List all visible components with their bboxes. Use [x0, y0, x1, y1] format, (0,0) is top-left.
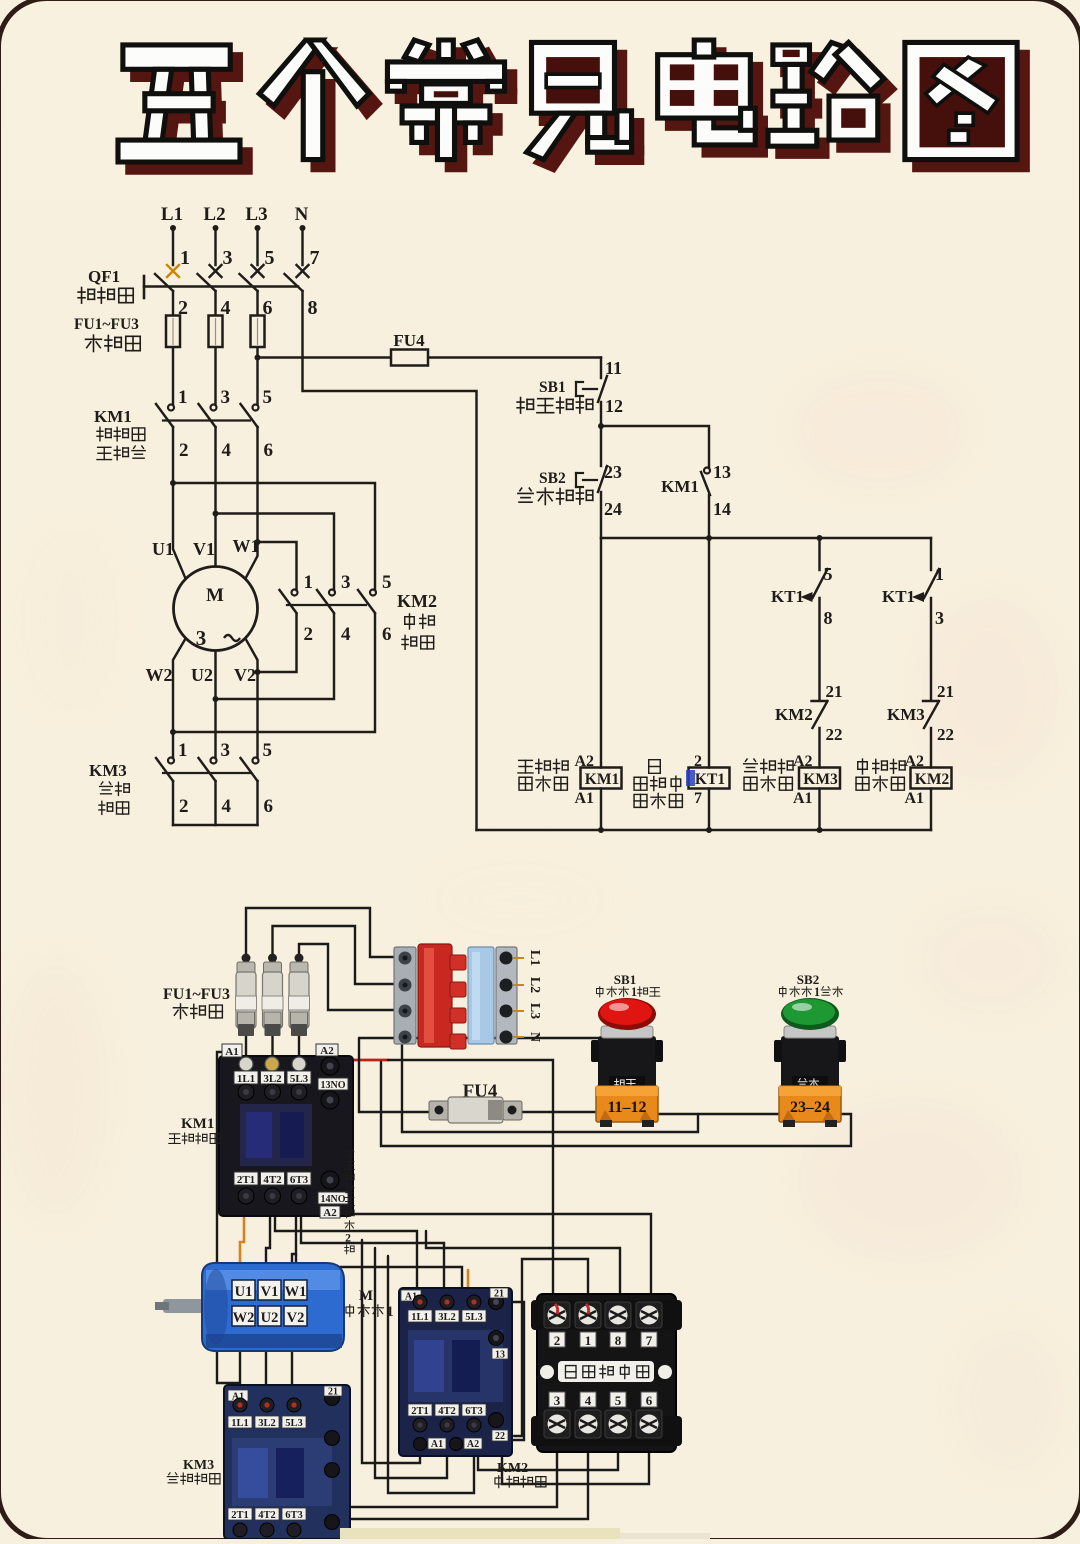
wire relay 3 to KM3 side: [341, 1448, 557, 1507]
title 五个常见电路图: [128, 50, 1027, 172]
svg-text:L3: L3: [527, 1003, 542, 1019]
wire coil KM1 to neutral bus: [600, 789, 602, 831]
wire column 819.5 from bus: [818, 538, 820, 570]
svg-text:5: 5: [382, 572, 392, 593]
node bus junctions: [706, 535, 712, 541]
KM1 terminal 3L2: [261, 1071, 285, 1084]
svg-text:4T2: 4T2: [263, 1174, 282, 1186]
svg-text:W2: W2: [233, 1310, 255, 1326]
wire SB1 to SB2 link: [381, 1062, 851, 1146]
KM1 terminal A2/13NO: [316, 1044, 338, 1056]
wire harness KM1 out to relay 7: [249, 1207, 651, 1312]
wire to NC contact: [818, 598, 820, 700]
relay terminal 2: [544, 1302, 570, 1328]
wire L2 drop: [214, 230, 216, 265]
svg-text:5: 5: [263, 740, 273, 761]
wire coil KT1 to neutral bus: [708, 789, 710, 831]
svg-text:2: 2: [304, 624, 314, 645]
contactor KM1 main contact: [168, 405, 174, 411]
KM3 linkage bar: [163, 772, 250, 774]
svg-text:2: 2: [179, 440, 189, 461]
pushbutton SB1 (NC stop): [575, 382, 577, 396]
svg-text:FU4: FU4: [393, 331, 425, 350]
svg-text:4: 4: [341, 624, 351, 645]
wire KM2 2T1 delta loop: [362, 1240, 420, 1463]
svg-text:KM3: KM3: [803, 771, 838, 788]
wire L1 drop: [172, 230, 174, 265]
wire V2 column to KM3: [246, 639, 258, 758]
svg-text:6: 6: [646, 1393, 653, 1408]
svg-text:8: 8: [615, 1333, 622, 1348]
breaker QF1 contact: [240, 274, 258, 291]
relay label 时间继电器: [540, 1365, 554, 1379]
svg-text:8: 8: [824, 608, 833, 628]
svg-text:3L2: 3L2: [263, 1073, 282, 1085]
contactor KM2 contact: [292, 590, 298, 596]
svg-text:14: 14: [713, 499, 731, 519]
wire W2 column to KM3: [173, 639, 185, 758]
svg-text:FU1~FU3: FU1~FU3: [163, 986, 230, 1003]
relay terminal 7: [636, 1302, 662, 1328]
wire KM2 6T3 delta loop: [388, 1256, 474, 1493]
wire to KM2 5L3: [296, 1254, 462, 1287]
svg-text:KM3: KM3: [183, 1458, 214, 1473]
svg-text:1: 1: [585, 1333, 592, 1348]
contactor KM2 contact: [329, 590, 335, 596]
wire coil feed KM1: [600, 538, 602, 768]
relay terminal 5: [610, 1392, 626, 1407]
pushbutton SB1 (photo): [591, 972, 663, 1127]
wire branch to KM1 aux: [601, 426, 709, 468]
wire control bus: [601, 537, 931, 539]
wire relay 4 to KM3 bottom: [310, 1448, 588, 1519]
svg-text:6: 6: [382, 624, 392, 645]
svg-text:V2: V2: [287, 1310, 305, 1326]
wire SB1 right to terminal block: [402, 1045, 698, 1132]
label coil KM3: [744, 759, 758, 772]
pushbutton SB2 (NO start): [575, 473, 577, 487]
breaker pole mark 1: [167, 247, 190, 277]
label coil KM2: [858, 759, 868, 774]
svg-text:4T2: 4T2: [438, 1406, 456, 1417]
wire KM3 contact bottom: [214, 781, 216, 825]
wire relay 6 to KM2 right: [502, 1448, 649, 1484]
svg-text:L2: L2: [527, 977, 542, 993]
KM2 terminal 2T1: [408, 1404, 432, 1416]
relay terminal 3: [549, 1392, 565, 1407]
svg-text:KT1: KT1: [882, 587, 915, 606]
KM1 terminal 5L3: [287, 1071, 311, 1084]
svg-text:1: 1: [180, 247, 190, 269]
svg-text:22: 22: [495, 1431, 505, 1442]
svg-text:3: 3: [223, 247, 233, 269]
motor terminal U2: [258, 1306, 281, 1326]
svg-text:A1: A1: [431, 1439, 443, 1450]
svg-text:L1: L1: [161, 204, 183, 225]
svg-text:SB1: SB1: [539, 379, 566, 396]
wire SB2 to bus: [600, 492, 602, 538]
svg-text:1: 1: [814, 985, 820, 999]
svg-text:KM2: KM2: [497, 1461, 528, 1476]
svg-text:21: 21: [494, 1289, 504, 1300]
terminal label L3: [513, 1010, 524, 1012]
wire N drop: [301, 230, 303, 265]
motor M 3~: [174, 567, 258, 651]
KM2 terminals A1 A2 bottom: [414, 1438, 427, 1451]
contactor KM1 main (photo): [219, 1044, 353, 1219]
svg-text:1: 1: [304, 572, 314, 593]
svg-text:KM1: KM1: [661, 477, 699, 496]
motor M 电动机1 (photo): [155, 1263, 344, 1351]
svg-text:1: 1: [631, 985, 637, 999]
wire KM1 A2 (red): [334, 1059, 388, 1062]
wire harness to relay 8: [426, 1231, 620, 1312]
artifact blue mark on KT1 coil: [686, 770, 695, 786]
wire V2 to KM2 pin2: [258, 614, 297, 672]
wire fuse1 to terminal block: [246, 908, 399, 958]
wire SB1 to junction: [600, 402, 602, 426]
node W1 branch: [255, 539, 261, 545]
svg-text:U1: U1: [152, 539, 174, 559]
svg-text:4: 4: [585, 1393, 592, 1408]
KM3 terminal 3L2: [260, 1398, 274, 1412]
svg-text:13: 13: [713, 462, 731, 482]
wire harness KM1 out to KM2 3L2: [301, 1207, 444, 1292]
svg-text:W1: W1: [285, 1284, 307, 1300]
wire control rail from FU4: [600, 358, 602, 379]
wire column 931 from bus: [930, 538, 932, 570]
label coil KM1: [518, 760, 533, 773]
contactor KM2 contact: [370, 590, 376, 596]
node phase1 branch: [170, 480, 176, 486]
svg-text:1: 1: [178, 740, 188, 761]
svg-text:1L1: 1L1: [411, 1312, 429, 1323]
svg-text:5L3: 5L3: [465, 1312, 483, 1323]
wire to SB2: [600, 426, 602, 466]
svg-text:KT1: KT1: [771, 587, 804, 606]
svg-text:W1: W1: [233, 536, 260, 556]
wire star point: [173, 824, 258, 826]
svg-text:2: 2: [345, 1232, 351, 1245]
svg-text:KM2: KM2: [397, 591, 437, 611]
wire coil feed KT1: [708, 538, 710, 768]
svg-text:5L3: 5L3: [290, 1073, 309, 1085]
wire neutral bus: [477, 829, 932, 831]
svg-text:3: 3: [935, 608, 944, 628]
svg-text:6T3: 6T3: [290, 1174, 309, 1186]
breaker pole mark 3: [210, 247, 233, 277]
KM1 terminal 6T3: [287, 1172, 311, 1185]
KM2 terminal 1L1: [413, 1295, 427, 1309]
svg-text:KM1: KM1: [585, 771, 619, 788]
fuse FU3: [251, 316, 265, 348]
svg-text:3: 3: [341, 572, 351, 593]
fuse holder at x=299: [289, 954, 310, 1037]
svg-text:KM3: KM3: [887, 705, 925, 724]
KM1 terminal A1: [222, 1044, 242, 1057]
svg-text:W2: W2: [146, 665, 173, 685]
svg-text:5: 5: [263, 387, 273, 408]
svg-text:6T3: 6T3: [285, 1510, 303, 1521]
svg-text:2T1: 2T1: [231, 1510, 249, 1521]
wire KM3 contact bottom: [256, 781, 258, 825]
svg-text:KM2: KM2: [775, 705, 813, 724]
wire orange stub KM2 5L3: [467, 1270, 470, 1292]
terminal label L1: [513, 957, 524, 959]
pushbutton SB2 (photo): [774, 972, 846, 1127]
svg-text:7: 7: [310, 247, 320, 269]
motor terminal W2: [232, 1306, 255, 1326]
KM1 terminal 1L1: [234, 1071, 258, 1084]
node N supply terminal: [295, 204, 309, 231]
svg-text:U2: U2: [261, 1310, 279, 1326]
wire phase3 KM1 to motor W1: [246, 427, 258, 578]
svg-text:A1: A1: [574, 790, 594, 807]
wire phase1 KM1 to motor U1: [173, 427, 185, 578]
breaker QF1 contact: [155, 274, 173, 291]
breaker QF1 linkage bar: [144, 285, 298, 288]
svg-text:A1: A1: [793, 790, 813, 807]
svg-text:A2: A2: [320, 1045, 334, 1057]
svg-text:11–12: 11–12: [607, 1099, 646, 1116]
fuse FU2: [209, 316, 223, 348]
table edge strip: [340, 1528, 620, 1539]
contactor KM2 NC interlock contact: [812, 700, 827, 702]
svg-text:1L1: 1L1: [237, 1073, 255, 1085]
svg-text:2T1: 2T1: [411, 1406, 429, 1417]
svg-text:N: N: [295, 204, 309, 225]
svg-text:1: 1: [178, 387, 188, 408]
node V2 junction: [255, 669, 261, 675]
svg-text:V1: V1: [261, 1284, 279, 1300]
contactor KM3 star (photo): [224, 1385, 350, 1539]
wire KM3 contact bottom: [172, 781, 174, 825]
node L3 supply terminal: [245, 204, 267, 231]
svg-text:6: 6: [264, 796, 274, 817]
wire W1 branch to KM2 pin1: [258, 542, 297, 590]
breaker pole mark 5: [252, 247, 275, 277]
KM3 terminal 21: [325, 1391, 340, 1406]
wire motor W2 to KM3: [239, 1328, 241, 1400]
wire to coil: [818, 728, 820, 768]
svg-text:24: 24: [604, 499, 622, 519]
contactor KM1 main contact: [211, 405, 217, 411]
svg-text:6: 6: [264, 440, 274, 461]
wire phase1 branch to KM2 pin5: [173, 483, 375, 590]
svg-text:4T2: 4T2: [258, 1510, 276, 1521]
svg-text:A2: A2: [467, 1439, 479, 1450]
wire block top to buttons: [359, 1037, 601, 1039]
KM2 terminal 6T3: [462, 1404, 486, 1416]
KM2 terminal 13: [489, 1331, 504, 1346]
KM2 terminal 5L3: [467, 1295, 481, 1309]
wire to NC contact: [930, 598, 932, 700]
motor terminal V1: [258, 1280, 281, 1300]
KM2 linkage bar: [287, 604, 366, 606]
wire coil KM3 to neutral bus: [818, 789, 820, 831]
svg-text:M: M: [359, 1288, 373, 1304]
svg-text:6T3: 6T3: [465, 1406, 483, 1417]
wire harness KM1 out to KM2 1L1: [275, 1207, 417, 1292]
wire L3 drop: [256, 230, 258, 265]
coil KT1: [689, 768, 730, 789]
relay contact KT1 (delayed): [813, 569, 828, 598]
wire branch to FU4: [258, 356, 602, 358]
svg-text:12: 12: [605, 396, 623, 416]
svg-text:3L2: 3L2: [258, 1418, 276, 1429]
relay terminal 6: [641, 1392, 657, 1407]
wire pole 3: [256, 291, 258, 404]
wire phase2 KM1 to motor V1: [214, 427, 216, 566]
breaker QF1 contact: [198, 274, 216, 291]
KM3 terminal 2T1: [228, 1508, 252, 1520]
svg-text:2: 2: [554, 1333, 561, 1348]
svg-text:5L3: 5L3: [285, 1418, 303, 1429]
wire coil KM2 to neutral bus: [930, 789, 932, 831]
node control junction: [598, 423, 604, 429]
svg-text:N: N: [527, 1032, 542, 1042]
KM3 terminal 6T3: [282, 1508, 306, 1520]
wire KM1 A1 loop: [217, 1052, 239, 1395]
svg-text:13NO: 13NO: [321, 1080, 346, 1091]
svg-text:SB2: SB2: [539, 470, 566, 487]
svg-text:3: 3: [554, 1393, 561, 1408]
svg-text:21: 21: [937, 682, 954, 701]
terminal label N: [513, 1036, 524, 1038]
KM1 terminal 4T2: [261, 1172, 285, 1185]
breaker QF1 contact: [285, 274, 303, 291]
coil KM1: [581, 768, 622, 789]
fuse holder at x=246: [236, 954, 257, 1037]
svg-text:L3: L3: [245, 204, 267, 225]
svg-text:1L1: 1L1: [231, 1418, 249, 1429]
wire A2 run to time relay terminal 2: [388, 1060, 553, 1308]
fuse FU4: [391, 350, 428, 366]
wire fuse3 to terminal block: [299, 944, 399, 1010]
coil KM3: [799, 768, 840, 789]
wire KM1 2T1 to motor U1 (orange): [240, 1207, 244, 1282]
relay contact KT1 (delayed): [924, 569, 939, 598]
svg-text:U1: U1: [235, 1284, 253, 1300]
svg-text:KM1: KM1: [94, 407, 132, 426]
wire W2 to KM2 pin6: [173, 614, 375, 732]
contactor KM1 main contact: [253, 405, 259, 411]
breaker pole mark 7: [297, 247, 320, 277]
svg-text:21: 21: [826, 682, 843, 701]
label coil KT1: [649, 760, 661, 774]
wire KM2 right side 21-22: [512, 1302, 524, 1440]
svg-text:13: 13: [495, 1350, 505, 1361]
KM3 terminal 4T2: [255, 1508, 279, 1520]
svg-text:4: 4: [222, 796, 232, 817]
svg-text:21: 21: [328, 1387, 338, 1398]
svg-text:KT1: KT1: [695, 771, 725, 788]
wire fuses to KM1 input: [245, 1035, 247, 1068]
contactor KM3 NC interlock contact: [923, 700, 938, 702]
wire N rail to control circuit: [303, 291, 477, 830]
wire FU4 to SB1: [518, 1111, 604, 1113]
KM2 terminal 3L2: [440, 1295, 454, 1309]
wire to coil: [930, 728, 932, 768]
fuse holder at x=272.5: [262, 954, 283, 1037]
coil KM2: [911, 768, 952, 789]
svg-text:M: M: [206, 585, 224, 606]
KM3 terminal 5L3: [287, 1398, 301, 1412]
wire relay 1 to KM2 side 22: [514, 1259, 588, 1436]
svg-text:7: 7: [694, 790, 702, 807]
svg-text:QF1: QF1: [88, 267, 120, 286]
wire motor U2 to KM3: [265, 1328, 267, 1400]
svg-text:2: 2: [179, 796, 189, 817]
svg-text:L1: L1: [527, 950, 542, 966]
svg-text:14NO: 14NO: [321, 1194, 346, 1205]
svg-text:5: 5: [615, 1393, 622, 1408]
svg-text:8: 8: [308, 297, 318, 319]
svg-text:A1: A1: [225, 1046, 238, 1058]
node W2 junction: [170, 729, 176, 735]
svg-text:7: 7: [646, 1333, 653, 1348]
svg-text:1: 1: [387, 1304, 394, 1320]
svg-text:4: 4: [222, 440, 232, 461]
KM3 terminal 1L1: [233, 1398, 247, 1412]
svg-text:22: 22: [826, 725, 843, 744]
wire pole 2: [214, 291, 216, 404]
label 常开触点一组和2组 (vertical): [345, 1149, 354, 1157]
svg-text:22: 22: [937, 725, 954, 744]
node L2 supply terminal: [203, 204, 225, 231]
relay terminal 4: [580, 1392, 596, 1407]
svg-text:3L2: 3L2: [438, 1312, 456, 1323]
svg-text:5: 5: [265, 247, 275, 269]
node L3 branch junction: [255, 355, 261, 361]
svg-text:FU1~FU3: FU1~FU3: [74, 316, 139, 333]
wire phase2 branch to KM2 pin3: [216, 514, 335, 591]
svg-text:A2: A2: [323, 1207, 337, 1219]
svg-text:KM1: KM1: [181, 1116, 214, 1132]
wire motor V2 to KM3: [291, 1328, 293, 1400]
node phase2 branch: [213, 511, 219, 517]
contactor KM2 delta (photo): [399, 1288, 512, 1456]
wire KM1 6T3 to motor W1: [292, 1207, 296, 1282]
terminal label L2: [513, 984, 524, 986]
fuse FU1: [166, 316, 180, 348]
svg-text:A1: A1: [904, 790, 924, 807]
node L1 supply terminal: [161, 204, 183, 231]
KM1 terminal 2T1: [234, 1172, 258, 1185]
node U2 junction: [213, 696, 219, 702]
relay terminal 1: [575, 1302, 601, 1328]
svg-text:U2: U2: [191, 665, 213, 685]
wire U2 to KM2 pin4: [216, 614, 335, 699]
KM1 linkage bar: [163, 419, 250, 421]
svg-text:KM3: KM3: [89, 761, 127, 780]
svg-text:3: 3: [221, 740, 231, 761]
wire pole 1: [172, 291, 174, 404]
relay terminal 8: [605, 1302, 631, 1328]
contactor KM3 contact: [211, 758, 217, 764]
KM2 terminal 4T2: [435, 1404, 459, 1416]
svg-text:2T1: 2T1: [237, 1174, 255, 1186]
svg-text:KM2: KM2: [915, 771, 950, 788]
motor terminal V2: [284, 1306, 307, 1326]
wire U2 column to KM3: [214, 652, 216, 759]
svg-text:V2: V2: [234, 665, 256, 685]
time relay 时间继电器 (photo): [531, 1294, 682, 1452]
svg-text:23–24: 23–24: [790, 1099, 830, 1116]
wire KM1 4T2 to motor V1: [266, 1207, 270, 1282]
terminal block assembly: [394, 944, 542, 1049]
svg-text:3: 3: [221, 387, 231, 408]
